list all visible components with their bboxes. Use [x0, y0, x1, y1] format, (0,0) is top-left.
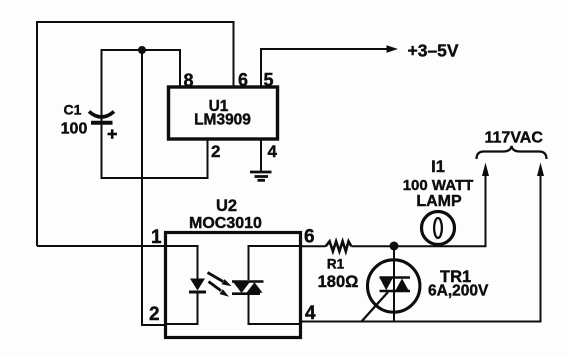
- svg-text:5: 5: [264, 70, 274, 90]
- svg-text:100: 100: [61, 121, 88, 138]
- svg-text:4: 4: [268, 142, 278, 161]
- svg-text:LAMP: LAMP: [416, 193, 462, 210]
- svg-text:6: 6: [304, 227, 315, 248]
- svg-text:100 WATT: 100 WATT: [403, 177, 474, 194]
- svg-text:8: 8: [184, 71, 194, 91]
- svg-text:C1: C1: [64, 102, 82, 118]
- svg-text:1: 1: [151, 227, 162, 248]
- svg-text:I1: I1: [431, 158, 445, 176]
- svg-text:LM3909: LM3909: [194, 112, 251, 129]
- svg-text:117VAC: 117VAC: [485, 129, 544, 146]
- svg-text:2: 2: [211, 142, 220, 161]
- svg-text:R1: R1: [327, 257, 345, 272]
- svg-text:6: 6: [238, 70, 248, 90]
- svg-text:MOC3010: MOC3010: [189, 215, 262, 232]
- svg-text:6A,200V: 6A,200V: [428, 283, 489, 300]
- svg-text:2: 2: [149, 304, 160, 325]
- svg-text:U2: U2: [216, 197, 237, 215]
- svg-text:+3–5V: +3–5V: [408, 40, 459, 60]
- svg-text:180Ω: 180Ω: [318, 273, 359, 291]
- svg-text:4: 4: [305, 303, 316, 324]
